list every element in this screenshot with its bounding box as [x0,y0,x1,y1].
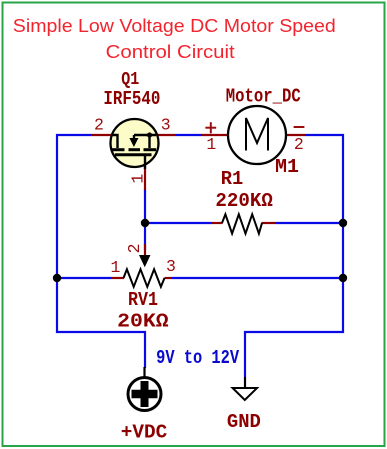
wire: Q1 pin3 to motor pin1 [176,134,202,136]
wire: motor pin2 down right rail, bottom run to GND [245,135,343,377]
svg-text:R1: R1 [221,168,244,190]
pin label + (motor) [205,122,216,133]
junction node right rail / R1 right [339,219,347,227]
transistor Q1 internal symbol [111,135,156,169]
transistor Q1 body [111,119,159,167]
motor M letter [246,118,268,151]
pin stub Q1 pin1 [144,167,146,190]
power symbol +VDC plus [132,390,158,399]
wire: R1 row right segment [276,222,343,224]
wire: gate vertical (Q1 pin1 to RV1 pin2 through node) [144,189,146,250]
svg-text:9V to 12V: 9V to 12V [156,347,239,369]
pin stub Q1 pin2 [91,134,112,136]
svg-text:Simple Low Voltage DC Motor Sp: Simple Low Voltage DC Motor Speed [13,16,336,36]
svg-text:GND: GND [227,411,261,433]
ground symbol triangle [233,388,257,400]
svg-text:2: 2 [94,116,104,135]
svg-text:Control Circuit: Control Circuit [106,42,235,62]
junction node right rail / RV1 pin3 [339,274,347,282]
power symbol +VDC pin [143,367,145,378]
wire: RV1 pin3 to right rail [172,277,343,279]
pin stub Q1 pin3 [155,134,176,136]
junction node left rail / RV1 pin1 [53,274,61,282]
svg-text:1: 1 [111,258,121,277]
svg-text:1: 1 [128,174,147,184]
pin stub RV1 pin2 wiper [144,244,146,255]
transistor Q1 bulk arrow [129,138,138,147]
svg-text:M1: M1 [275,156,299,178]
svg-text:3: 3 [166,257,176,276]
pin stub R1 right [262,222,277,224]
svg-text:20KΩ: 20KΩ [117,311,169,333]
transistor Q1 bulk-drain junction [147,132,152,137]
svg-text:IRF540: IRF540 [103,88,160,110]
svg-text:220KΩ: 220KΩ [215,190,273,212]
wire: RV1 pin1 to left rail [57,277,111,279]
svg-text:RV1: RV1 [128,289,158,311]
junction node gate / R1 left [141,219,149,227]
svg-text:3: 3 [161,115,171,134]
pin stub RV1 pin3 [165,277,173,279]
pin stub motor pin2 [286,134,306,136]
svg-text:Motor_DC: Motor_DC [226,86,301,108]
wire: Q1 pin2 to left rail, down, bottom run to +VDC [57,135,145,368]
motor M1 body [228,106,286,164]
resistor R1 zigzag [222,214,262,233]
pin stub motor pin1 [202,134,229,136]
svg-text:1: 1 [206,135,216,154]
pin stub R1 left [211,222,223,224]
ground symbol pin [244,377,246,388]
svg-text:2: 2 [125,243,144,253]
potentiometer RV1 wiper arrow [139,255,151,267]
svg-text:Q1: Q1 [121,70,139,90]
power symbol +VDC body [128,378,161,411]
wire: R1 row left segment [145,222,211,224]
svg-text:2: 2 [294,135,304,154]
pin stub RV1 pin1 [111,277,124,279]
pin label - (motor) [294,126,305,128]
potentiometer RV1 zigzag [124,269,165,287]
svg-text:+VDC: +VDC [121,421,168,443]
